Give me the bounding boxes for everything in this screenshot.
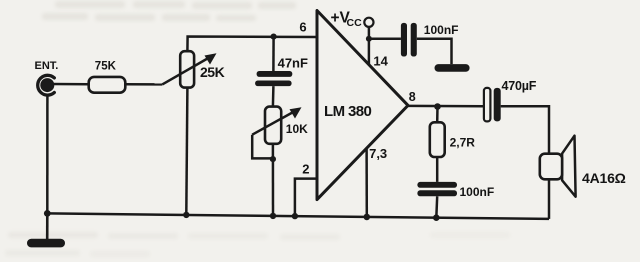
wire jack to R1 (52, 83, 89, 86)
wire Vcc node to C2 (369, 38, 401, 41)
ground (435, 64, 470, 72)
wire speaker bottom to ground bus (548, 179, 551, 219)
speaker LS1 (540, 136, 576, 197)
junction dot Vcc node (366, 36, 372, 42)
svg-text:470µF: 470µF (502, 79, 537, 93)
wire C3 to ground bus (435, 196, 438, 217)
wire P1 bottom to ground bus (186, 88, 187, 215)
capacitor C4 470uF electrolytic (484, 79, 537, 121)
supply +Vcc label (331, 10, 363, 29)
ground (27, 239, 65, 248)
wire P1 top to node 6 rail (187, 37, 317, 52)
ground bus wire (47, 213, 549, 219)
svg-text:2,7R: 2,7R (450, 136, 476, 150)
wire Vcc terminal to pin 14 (368, 27, 371, 65)
wire R2 to C3 (436, 157, 439, 182)
wire P2 wiper tail to bottom terminal (252, 135, 273, 159)
capacitor C1 47nF (255, 56, 308, 87)
supply terminal circle (364, 18, 373, 27)
junction dot P1 ground (183, 212, 189, 218)
junction dot P2 wiper tie (270, 156, 276, 162)
wire pins 7,3 to ground bus (365, 148, 368, 217)
wire output node to R2 (436, 107, 439, 123)
svg-text:100nF: 100nF (424, 23, 459, 37)
capacitor C2 100nF (401, 23, 459, 57)
wire output pin 8 to C4 (408, 105, 484, 108)
wire node 6 to C1 (272, 37, 275, 71)
op-amp U1 LM380 (317, 11, 408, 200)
junction dot output node (434, 103, 441, 110)
wire jack shield to ground bus (46, 95, 49, 214)
svg-text:7,3: 7,3 (369, 146, 387, 161)
junction dot P2 ground (270, 213, 276, 219)
potentiometer P1 25K body (180, 51, 194, 87)
svg-text:ENT.: ENT. (35, 60, 59, 72)
junction dot jack ground (44, 210, 51, 217)
wire R1 to P1 wiper (125, 83, 162, 86)
junction dot node 6 / C1 (271, 34, 277, 40)
potentiometer P2 wiper arrow (252, 107, 301, 134)
wire bus to ground symbol (46, 213, 49, 240)
svg-text:14: 14 (373, 53, 388, 68)
svg-text:6: 6 (299, 20, 306, 35)
svg-text:75K: 75K (95, 60, 117, 72)
potentiometer P2 10K body (265, 107, 281, 144)
svg-text:2: 2 (302, 162, 309, 177)
svg-text:CC: CC (347, 17, 363, 29)
svg-text:10K: 10K (286, 122, 308, 136)
svg-text:8: 8 (409, 90, 416, 104)
resistor R2 2,7R (430, 122, 475, 157)
wire C1 to P2 (272, 86, 275, 107)
junction dot pins 7,3 ground (364, 214, 371, 221)
input jack J1 ENT. (35, 60, 59, 95)
junction dot pin 2 ground (292, 213, 298, 219)
wire C2 to ground (417, 39, 452, 64)
wire C4 to speaker (501, 106, 549, 153)
wire pin 2 to ground bus (295, 179, 317, 217)
wire P2 bottom to ground bus (272, 144, 275, 216)
svg-text:100nF: 100nF (460, 185, 495, 199)
resistor R1 75K (89, 60, 126, 92)
capacitor C3 100nF (417, 182, 494, 199)
potentiometer P1 wiper arrow (162, 53, 216, 84)
svg-text:LM 380: LM 380 (324, 103, 372, 120)
svg-text:47nF: 47nF (278, 56, 308, 71)
svg-text:25K: 25K (200, 64, 225, 80)
svg-text:4A16Ω: 4A16Ω (582, 170, 626, 186)
junction dot C3 ground (433, 214, 440, 221)
